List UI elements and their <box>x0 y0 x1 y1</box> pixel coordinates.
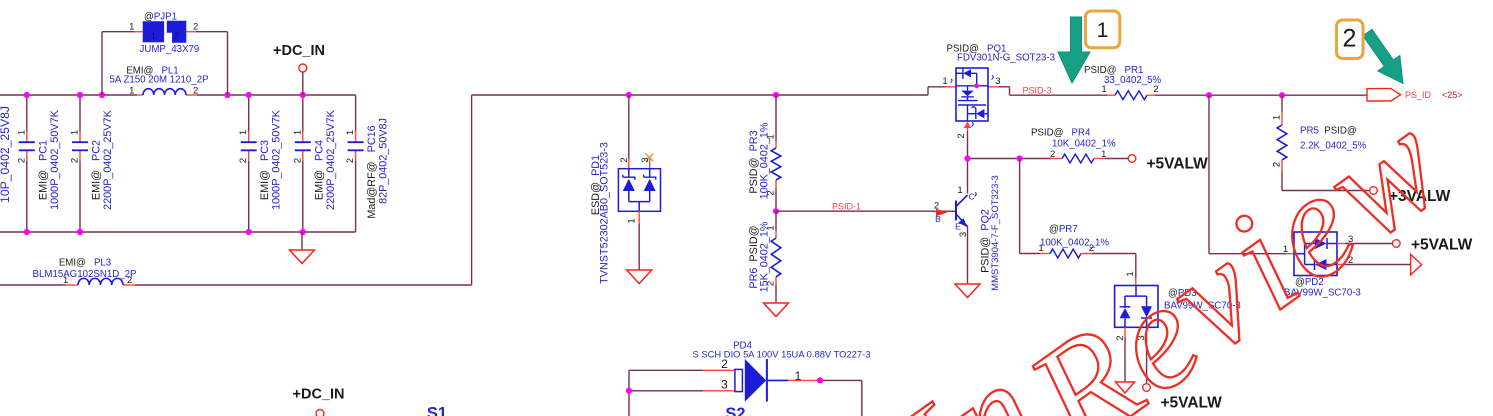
svg-text:1: 1 <box>151 31 156 41</box>
svg-text:1: 1 <box>795 369 802 383</box>
svg-text:1000P_0402_50V7K: 1000P_0402_50V7K <box>49 109 61 209</box>
svg-text:100K_0402_1%: 100K_0402_1% <box>1040 237 1109 248</box>
svg-text:1: 1 <box>238 130 249 135</box>
svg-text:2: 2 <box>1343 25 1357 53</box>
svg-text:2: 2 <box>193 21 198 32</box>
svg-text:100K_0402_1%: 100K_0402_1% <box>759 122 771 199</box>
svg-text:2: 2 <box>345 158 356 163</box>
svg-text:1: 1 <box>292 130 303 135</box>
svg-text:C: C <box>969 192 975 202</box>
svg-text:1000P_0402_50V7K: 1000P_0402_50V7K <box>271 109 283 209</box>
svg-text:2200P_0402_25V7K: 2200P_0402_25V7K <box>325 109 337 209</box>
svg-text:EMI@ PC2: EMI@ PC2 <box>91 140 103 200</box>
svg-text:2200P_0402_25V7K: 2200P_0402_25V7K <box>102 109 114 209</box>
svg-text:2: 2 <box>292 158 303 163</box>
svg-text:2: 2 <box>16 158 27 163</box>
svg-text:EMI@ PC4: EMI@ PC4 <box>313 140 325 200</box>
svg-text:1: 1 <box>1272 115 1283 120</box>
svg-text:2: 2 <box>934 200 939 211</box>
svg-text:MMST3904-7-F_SOT323-3: MMST3904-7-F_SOT323-3 <box>990 175 1001 291</box>
svg-text:Mad@RF@ PC16: Mad@RF@ PC16 <box>366 125 378 218</box>
svg-text:1: 1 <box>16 130 27 135</box>
svg-text:2: 2 <box>238 158 249 163</box>
svg-text:S1: S1 <box>427 405 447 416</box>
svg-text:2: 2 <box>193 85 198 96</box>
svg-text:FDV301N-G_SOT23-3: FDV301N-G_SOT23-3 <box>957 52 1055 63</box>
svg-text:15K_0402_1%: 15K_0402_1% <box>759 221 771 292</box>
svg-text:EMI@ PC1: EMI@ PC1 <box>38 140 50 200</box>
svg-text:PSID@ PR4: PSID@ PR4 <box>1031 127 1091 138</box>
svg-text:@PJP1: @PJP1 <box>144 12 177 23</box>
svg-text:@PR7: @PR7 <box>1049 224 1078 235</box>
svg-text:10K_0402_1%: 10K_0402_1% <box>1052 138 1116 149</box>
svg-text:EMI@ PL3: EMI@ PL3 <box>59 257 111 268</box>
svg-text:BLM15AG102SN1D_2P: BLM15AG102SN1D_2P <box>33 269 137 280</box>
svg-text:B: B <box>935 214 941 224</box>
svg-text:TVNST52302AB0_SOT523-3: TVNST52302AB0_SOT523-3 <box>599 142 611 284</box>
svg-text:10P_0402_25V8J: 10P_0402_25V8J <box>0 106 12 203</box>
svg-text:3: 3 <box>995 76 1000 87</box>
svg-text:1: 1 <box>627 218 638 223</box>
svg-text:1: 1 <box>1097 19 1109 42</box>
svg-text:1: 1 <box>70 130 81 135</box>
svg-text:2: 2 <box>1050 149 1055 160</box>
svg-text:1: 1 <box>957 185 962 196</box>
svg-text:1: 1 <box>129 85 134 96</box>
svg-text:EMI@ PC3: EMI@ PC3 <box>259 140 271 200</box>
svg-text:PSID-1: PSID-1 <box>832 201 861 211</box>
svg-text:+DC_IN: +DC_IN <box>293 387 345 403</box>
svg-text:82P_0402_50V8J: 82P_0402_50V8J <box>378 118 390 204</box>
svg-text:+5VALW: +5VALW <box>1147 156 1209 173</box>
svg-text:33_0402_5%: 33_0402_5% <box>1104 75 1161 86</box>
svg-text:2: 2 <box>70 158 81 163</box>
svg-text:1: 1 <box>345 130 356 135</box>
svg-text:1: 1 <box>129 21 134 32</box>
svg-text:<25>: <25> <box>1442 90 1463 100</box>
svg-text:1: 1 <box>1101 149 1106 160</box>
svg-text:S2: S2 <box>725 405 745 416</box>
svg-text:+DC_IN: +DC_IN <box>273 43 325 59</box>
svg-text:3: 3 <box>721 378 728 392</box>
svg-text:2: 2 <box>619 157 630 162</box>
svg-text:2: 2 <box>956 133 967 138</box>
svg-text:3: 3 <box>640 157 651 162</box>
svg-text:2: 2 <box>174 31 179 41</box>
svg-text:5A Z150 20M 1210_2P: 5A Z150 20M 1210_2P <box>109 74 208 85</box>
svg-text:PS_ID: PS_ID <box>1405 90 1432 100</box>
svg-text:JUMP_43X79: JUMP_43X79 <box>140 44 200 55</box>
svg-text:S SCH DIO 5A 100V 15UA 0.88V T: S SCH DIO 5A 100V 15UA 0.88V TO227-3 <box>693 348 871 359</box>
svg-text:PSID-3: PSID-3 <box>1023 85 1052 95</box>
svg-text:E: E <box>955 222 961 232</box>
svg-text:1: 1 <box>942 76 947 87</box>
